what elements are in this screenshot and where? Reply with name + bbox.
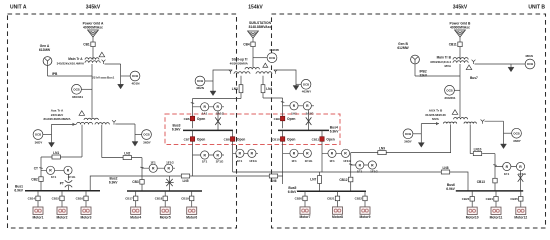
label Power Grid A xyxy=(83,22,104,30)
wire Bus6 feeder 1 xyxy=(471,191,473,197)
oil circuit breaker 4D1N xyxy=(130,71,140,85)
svg-text:OCB: OCB xyxy=(35,133,41,137)
svg-text:UNIT A: UNIT A xyxy=(10,5,27,11)
svg-text:IPB: IPB xyxy=(52,72,58,76)
svg-text:36DY: 36DY xyxy=(513,139,522,143)
wire OCB 4D2N tap xyxy=(205,80,213,82)
svg-text:Motor5: Motor5 xyxy=(160,215,171,219)
label 1F1 B4 xyxy=(504,172,510,176)
label CB2 xyxy=(31,177,38,181)
relay 1F1 B2 xyxy=(328,149,336,157)
svg-text:22kV: 22kV xyxy=(420,73,428,77)
label CB1 xyxy=(83,43,90,47)
svg-text:Open: Open xyxy=(237,138,245,142)
svg-text:345kV: 345kV xyxy=(453,5,468,11)
oil circuit breaker 4D2N xyxy=(195,76,205,90)
label CB20 xyxy=(295,197,303,201)
wire Bus2 feeder 3 xyxy=(191,191,193,196)
svg-text:Bus1: Bus1 xyxy=(107,76,115,80)
breaker CB19 xyxy=(190,196,194,201)
label 1F1 A2 xyxy=(150,161,156,165)
open disconnect tie bus6 xyxy=(518,174,524,182)
label 1A1 B xyxy=(291,111,297,115)
label Gen A xyxy=(39,44,51,52)
svg-text:36DY: 36DY xyxy=(404,140,413,144)
svg-text:Motor1: Motor1 xyxy=(33,215,44,219)
wire OCB 36DY-A drop xyxy=(51,124,53,142)
label 1F1G B1 xyxy=(305,159,313,163)
svg-text:1F1: 1F1 xyxy=(237,159,243,163)
open disconnect tie A xyxy=(165,179,173,186)
wire grid A drop xyxy=(92,37,94,42)
relay 1A1G B xyxy=(303,102,311,110)
wire Bus1 feeder 1 xyxy=(37,191,39,196)
svg-text:CB4: CB4 xyxy=(243,43,250,47)
UNIT A boundary box xyxy=(8,14,237,228)
svg-text:1F1G: 1F1G xyxy=(166,160,174,164)
svg-text:OCB: OCB xyxy=(143,133,149,137)
svg-text:MVA: MVA xyxy=(445,64,452,68)
breaker CB15 xyxy=(60,196,64,201)
title UNIT B xyxy=(528,5,545,11)
wire CB3 to Bus2 xyxy=(141,184,143,191)
svg-text:OCB: OCB xyxy=(405,132,411,136)
wire LN7 stem bottom xyxy=(319,184,321,192)
breaker CB25 xyxy=(519,197,523,202)
breaker CB6 (open, red) xyxy=(184,116,206,121)
breaker CB7 (open, red) xyxy=(184,137,206,142)
relay 1F1G A2 xyxy=(165,164,173,172)
wire OCB 36DY-C drop xyxy=(420,124,422,143)
motor Motor2 xyxy=(57,207,68,219)
wire LN10 lead left xyxy=(470,153,473,155)
delta Aux Tr B xyxy=(452,110,458,115)
svg-text:CB24: CB24 xyxy=(486,197,494,201)
svg-text:345/22kV,610.4MVA: 345/22kV,610.4MVA xyxy=(57,61,85,65)
wire tie drop to Bus2 xyxy=(169,176,171,191)
svg-text:CB22: CB22 xyxy=(355,197,363,201)
svg-text:Motor11: Motor11 xyxy=(490,215,503,219)
wire Aux A right lead xyxy=(115,123,135,125)
svg-text:Motor12: Motor12 xyxy=(514,215,527,219)
breaker CB10 (open, red) xyxy=(272,137,295,142)
breaker CB11t xyxy=(458,42,462,47)
label 1F1G A2 xyxy=(166,160,174,164)
wire substation drop xyxy=(252,38,254,42)
label CB11 xyxy=(449,43,457,47)
UNIT B boundary box xyxy=(272,14,546,228)
svg-text:OCB: OCB xyxy=(446,88,452,92)
svg-text:LN7: LN7 xyxy=(310,178,316,182)
wire CB18 to motor xyxy=(164,201,166,207)
svg-text:CB1: CB1 xyxy=(83,43,90,47)
svg-text:6.9kV: 6.9kV xyxy=(330,130,339,134)
relay 1F1G B4 xyxy=(516,162,524,170)
transformer Main Tr B xyxy=(453,58,475,70)
svg-text:CB20: CB20 xyxy=(295,197,303,201)
wire CB9 drop 2 xyxy=(282,114,284,128)
breaker CB2 xyxy=(39,177,43,182)
svg-text:CB10: CB10 xyxy=(272,137,280,141)
line reactor LN9 xyxy=(378,147,386,155)
wire Aux A right secondary drop xyxy=(101,125,103,158)
label Gen B xyxy=(397,42,409,50)
wire CB10 to tie wire A xyxy=(282,153,284,184)
svg-text:4D2N: 4D2N xyxy=(196,86,205,90)
svg-text:OCB: OCB xyxy=(73,87,79,91)
CT tick CB3 xyxy=(140,166,143,169)
svg-text:Motor4: Motor4 xyxy=(130,215,141,219)
wire relay branch CB7 xyxy=(193,154,225,156)
label Main Tr A xyxy=(57,57,85,65)
ground 22kV B xyxy=(508,67,514,72)
svg-text:8148.88MVAsc: 8148.88MVAsc xyxy=(249,25,272,29)
wire LN4 stem bottom xyxy=(262,93,264,98)
svg-text:Bus7: Bus7 xyxy=(470,76,478,80)
svg-text:1F1: 1F1 xyxy=(504,172,510,176)
svg-text:36DY: 36DY xyxy=(143,140,152,144)
wire feeder CB12 drop xyxy=(350,153,352,177)
oil circuit breaker 360/361 xyxy=(72,84,84,99)
wire Bus1 feeder 2 xyxy=(61,191,63,196)
svg-text:40000MVAsc: 40000MVAsc xyxy=(83,26,103,30)
svg-text:612MW: 612MW xyxy=(39,48,51,52)
wire OCB 402NY tap xyxy=(296,83,301,85)
oil circuit breaker 36DY-B xyxy=(142,130,152,145)
svg-text:360/361: 360/361 xyxy=(72,95,83,99)
wire relay branch CB2 xyxy=(41,169,69,171)
relay 1F1 A3 xyxy=(201,151,209,159)
svg-text:PT: PT xyxy=(60,181,64,185)
ground 36DY-A xyxy=(49,143,55,148)
arrow Aux A primary xyxy=(73,123,76,126)
motor Motor1 xyxy=(33,207,44,219)
breaker CB24 xyxy=(494,197,498,202)
wire relay branch CB12 xyxy=(351,164,377,166)
label PT xyxy=(60,181,64,185)
wire CB20 to motor xyxy=(304,201,306,207)
svg-text:MVA: MVA xyxy=(432,117,439,121)
ground 36DY-C xyxy=(418,143,424,148)
wire relay branch CB6 xyxy=(193,106,225,108)
wire 22kV drop B xyxy=(510,64,512,67)
label Aux Tr A xyxy=(43,109,70,121)
ground startup left xyxy=(210,91,216,96)
breaker CB20 xyxy=(303,196,307,201)
breaker CB13 xyxy=(493,178,497,183)
svg-text:CB16: CB16 xyxy=(76,197,84,201)
wire CB11 drop xyxy=(321,130,323,153)
ground startup right xyxy=(293,86,299,91)
wire Aux B right lead xyxy=(485,120,504,122)
wire feeder CB2 drop xyxy=(40,157,42,177)
label CB22 xyxy=(355,197,363,201)
tie wire A xyxy=(90,176,283,191)
bus Bus5 xyxy=(297,190,366,192)
svg-text:1F1: 1F1 xyxy=(51,175,57,179)
label 1A1 A xyxy=(202,111,208,115)
svg-text:1F1G: 1F1G xyxy=(216,160,224,164)
svg-text:OCB: OCB xyxy=(132,74,138,78)
oil circuit breaker 402NY xyxy=(301,79,312,93)
label CB13 xyxy=(477,180,485,184)
label CB16 xyxy=(76,197,84,201)
svg-text:4B1N: 4B1N xyxy=(525,54,534,58)
breaker CB14 xyxy=(36,196,40,201)
relay 1F1 B3 xyxy=(356,161,364,169)
breaker CB9 (open, red) xyxy=(274,116,296,121)
wire CB25 to motor xyxy=(520,201,522,207)
svg-text:CB17: CB17 xyxy=(125,197,133,201)
breaker CB21 xyxy=(335,196,339,201)
relay 1F1 B4 xyxy=(503,162,511,170)
label 1F1G B2 xyxy=(343,159,351,163)
svg-text:AUX Tr B: AUX Tr B xyxy=(429,109,443,113)
wire aux secondary wire A left xyxy=(41,156,82,158)
transformer Main Tr A xyxy=(85,52,105,64)
svg-text:LN9: LN9 xyxy=(379,147,385,151)
wire OCB 4B1N tap xyxy=(511,63,525,65)
wire CB4 to Start-up Tr xyxy=(252,47,254,68)
ground 22kV A xyxy=(118,84,124,89)
svg-text:1F1: 1F1 xyxy=(202,160,208,164)
wire OCB 360/361 B tap xyxy=(454,89,460,91)
drawout contact PT xyxy=(65,180,72,187)
label CB23 xyxy=(462,197,470,201)
label Bus7 xyxy=(470,76,478,80)
wire relay branch CB11 xyxy=(322,152,348,154)
svg-text:LN4: LN4 xyxy=(266,87,272,91)
motor Motor7 xyxy=(300,207,311,219)
label IPB xyxy=(52,72,58,76)
label CB25 xyxy=(510,197,518,201)
svg-text:4D1N: 4D1N xyxy=(132,81,141,85)
wire relay branch CB13 xyxy=(495,166,521,168)
svg-text:Motor2: Motor2 xyxy=(57,215,68,219)
wire CB9 drop xyxy=(282,98,284,114)
motor Motor8 xyxy=(332,207,343,219)
wire startup left xyxy=(213,70,232,91)
wire CB15 to motor xyxy=(61,201,63,207)
wire Aux B primary left lead xyxy=(421,123,439,125)
motor Motor9 xyxy=(360,207,371,219)
svg-text:1F1G: 1F1G xyxy=(343,159,351,163)
motor Motor12 xyxy=(514,207,527,219)
breaker CB18 xyxy=(163,196,167,201)
generator Gen A xyxy=(43,57,52,66)
svg-text:6.9kV: 6.9kV xyxy=(172,128,181,132)
svg-text:6.9kV: 6.9kV xyxy=(109,181,118,185)
delta Aux Tr A xyxy=(79,111,85,116)
label 1F1G A4 xyxy=(249,159,257,163)
wire aux B left sec bus fix xyxy=(350,152,352,154)
label IPB2 xyxy=(420,69,428,77)
svg-text:1F1: 1F1 xyxy=(357,170,363,174)
svg-text:1A1G: 1A1G xyxy=(305,111,314,115)
wire CB24 to motor xyxy=(495,201,497,207)
breaker CB22 xyxy=(363,196,367,201)
wire CB11 to tie wire B xyxy=(321,153,323,172)
line reactor LN3 xyxy=(232,85,243,93)
label CB4 xyxy=(243,43,250,47)
svg-text:612MW: 612MW xyxy=(397,46,409,50)
transformer Aux Tr A xyxy=(77,118,116,124)
svg-text:LN2: LN2 xyxy=(124,152,130,156)
wire aux secondary bus B xyxy=(351,152,451,154)
wire LN4 to CB9 chain xyxy=(263,97,283,99)
oil circuit breaker 36DY-D xyxy=(512,128,522,143)
svg-text:Motor10: Motor10 xyxy=(466,215,479,219)
wire OCB 36DY-C tap xyxy=(413,133,421,135)
svg-text:CB21: CB21 xyxy=(327,197,335,201)
svg-text:1F1: 1F1 xyxy=(291,159,297,163)
wire CB16 to motor xyxy=(85,201,87,207)
wire LN3 to CB6 chain xyxy=(193,98,242,100)
wire 22kV drop A xyxy=(120,64,122,84)
wire OCB 36DY-D tap xyxy=(504,132,512,134)
wire LN10 lead right xyxy=(482,153,495,155)
svg-text:1A1: 1A1 xyxy=(202,111,208,115)
wire Main Tr B secondary lead xyxy=(475,63,512,65)
line reactor LN1 xyxy=(52,151,60,159)
wire bowtie B stem xyxy=(308,110,310,130)
wire Bus1 feeder 3 xyxy=(85,191,87,196)
label 1F1 A1 xyxy=(51,175,57,179)
svg-text:1F1G: 1F1G xyxy=(370,170,378,174)
wire Aux B right secondary drop xyxy=(469,124,471,153)
wire CB8 to tie wire B xyxy=(232,153,234,172)
wire LN3 stem bottom xyxy=(240,93,242,99)
relay 1F1G B2 xyxy=(341,149,349,157)
relay 1F1 A4 xyxy=(236,149,244,157)
label Power Grid B xyxy=(450,22,472,30)
breaker CB1 xyxy=(91,42,95,47)
tie wire B xyxy=(233,172,468,191)
svg-text:CB2: CB2 xyxy=(31,177,38,181)
breaker CB11 (open, red) xyxy=(312,137,335,142)
wire OCB 36DY-B tap xyxy=(135,134,142,136)
svg-text:154kV: 154kV xyxy=(248,5,263,11)
wire CB7 to tie wire xyxy=(192,155,194,176)
bus Bus3 xyxy=(183,129,233,131)
grid source Power Grid A xyxy=(88,30,99,37)
relay 1F1G A4 xyxy=(248,149,256,157)
svg-text:LN6: LN6 xyxy=(270,179,276,183)
svg-text:Open: Open xyxy=(326,138,334,142)
wire feeder CB13 drop xyxy=(494,154,496,179)
svg-text:6.9kV: 6.9kV xyxy=(288,190,297,194)
label CB3 xyxy=(132,180,139,184)
svg-text:Open: Open xyxy=(197,117,205,121)
svg-text:CT: CT xyxy=(34,167,38,171)
line reactor LN7 xyxy=(310,176,321,184)
motor Motor11 xyxy=(490,207,503,219)
svg-text:CB14: CB14 xyxy=(28,197,36,201)
svg-text:CB8: CB8 xyxy=(224,137,230,141)
label 1F1 B2 xyxy=(329,159,335,163)
svg-text:OCB: OCB xyxy=(303,82,309,86)
title 154kV xyxy=(248,5,263,11)
label 1F1G A1 xyxy=(68,175,76,179)
svg-text:CB3: CB3 xyxy=(132,180,139,184)
label CB24 xyxy=(486,197,494,201)
label 1F1 A4 xyxy=(237,159,243,163)
generator Gen B xyxy=(411,55,420,64)
wire CB17 to motor xyxy=(135,201,137,207)
wire Bus5 feeder 1 xyxy=(304,191,306,196)
ground Aux A right xyxy=(132,142,138,147)
wire LN4 stem top xyxy=(262,76,264,85)
svg-text:6.9kV: 6.9kV xyxy=(14,189,23,193)
svg-text:Open: Open xyxy=(287,138,295,142)
svg-text:402NY: 402NY xyxy=(302,90,312,94)
svg-text:CB15: CB15 xyxy=(52,197,60,201)
svg-text:LN5: LN5 xyxy=(182,179,188,183)
red open boundary box xyxy=(165,114,340,145)
svg-text:CB19: CB19 xyxy=(181,197,189,201)
svg-text:OCB: OCB xyxy=(197,79,203,83)
wire CB6 drop 2 xyxy=(192,114,194,128)
title UNIT A xyxy=(10,5,27,11)
svg-text:345kV: 345kV xyxy=(86,5,101,11)
wire CB2 to Bus1 xyxy=(40,181,42,190)
wire CB1 to Main Tr A xyxy=(92,47,94,60)
label Bus1 xyxy=(14,185,23,193)
wire CB7 drop xyxy=(192,130,194,155)
wire CB21 to motor xyxy=(337,201,339,207)
label CB17 xyxy=(125,197,133,201)
label 1F1 B1 xyxy=(291,159,297,163)
wire CB23 to motor xyxy=(471,201,473,207)
label CB15 xyxy=(52,197,60,201)
svg-text:CB9: CB9 xyxy=(274,117,280,121)
svg-text:Open: Open xyxy=(287,117,295,121)
wire Aux A left secondary drop xyxy=(81,125,83,157)
svg-text:83.8/26.68/26.68MVA: 83.8/26.68/26.68MVA xyxy=(43,117,70,121)
svg-text:OCB: OCB xyxy=(269,56,275,60)
motor Motor5 xyxy=(160,207,171,219)
relay 1A1 A xyxy=(201,103,209,111)
svg-text:CB18: CB18 xyxy=(155,197,163,201)
svg-text:OCB: OCB xyxy=(527,62,533,66)
wire main 22kV vertical A xyxy=(91,64,93,118)
wire OCB 4D1N tap xyxy=(121,75,131,77)
label CB14 xyxy=(28,197,36,201)
wire CB5 to Main Tr B xyxy=(459,47,461,60)
relay 1F1 A2 xyxy=(149,164,157,172)
wire relay branch CB3 xyxy=(142,167,175,169)
transformer Aux Tr B xyxy=(444,117,485,123)
wire LN7 stem top xyxy=(319,172,321,176)
wire CB14 to motor xyxy=(37,201,39,207)
bus Bus6 xyxy=(456,190,523,192)
grid source substation source xyxy=(248,31,259,38)
wire Bus6 feeder 2 xyxy=(495,191,497,197)
wire CB8 drop xyxy=(232,130,234,153)
line reactor LN5 xyxy=(181,174,189,183)
oil circuit breaker 36DY-A xyxy=(33,130,43,145)
wire CB13 to Bus6 xyxy=(494,183,496,191)
wire Bus5 feeder 2 xyxy=(337,191,339,196)
CT tick xyxy=(39,167,42,170)
svg-text:1A1: 1A1 xyxy=(291,111,297,115)
CB6 tick xyxy=(191,102,194,105)
label Bus6 xyxy=(446,183,455,191)
breaker CB17 xyxy=(134,196,138,201)
open disconnect tie bus4 xyxy=(306,117,312,125)
wire Bus2 feeder 1 xyxy=(135,191,137,196)
CT tick CB12 xyxy=(349,163,352,166)
